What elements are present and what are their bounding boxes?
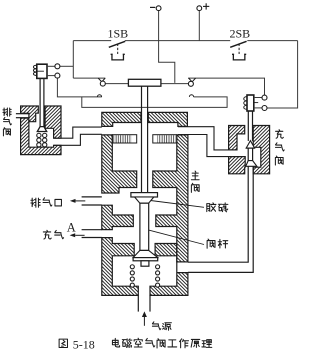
svg-text:5-18: 5-18 — [73, 337, 95, 351]
svg-text:A: A — [67, 221, 76, 235]
svg-text:2SB: 2SB — [230, 27, 251, 41]
svg-text:1SB: 1SB — [108, 27, 129, 41]
